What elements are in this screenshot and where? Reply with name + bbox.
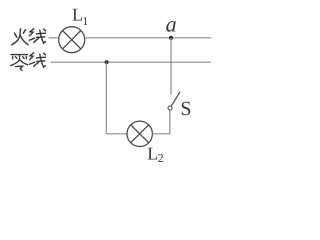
- wire: bottom branch to L2: [106, 133, 127, 135]
- svg-text:L: L: [72, 5, 83, 25]
- wire neutral: [51, 61, 211, 63]
- wire live: dash from 火线 to L1: [48, 37, 57, 39]
- wire: switch up to node a: [170, 38, 172, 95]
- node a (junction dot): [169, 36, 173, 40]
- label 零线 (neutral wire): [11, 53, 46, 71]
- svg-text:1: 1: [82, 14, 88, 28]
- svg-text:a: a: [166, 12, 177, 37]
- label 火线 (live wire): [12, 29, 46, 45]
- lamp L2: [127, 121, 152, 146]
- svg-text:L: L: [147, 144, 158, 164]
- switch S blade: [171, 92, 180, 106]
- wire live: L1 to right edge: [85, 37, 212, 39]
- wire: L2 to switch corner: [153, 110, 170, 134]
- junction dot on neutral wire: [105, 60, 109, 64]
- switch S pivot circle: [168, 106, 172, 110]
- lamp L1: [59, 27, 85, 53]
- wire: neutral junction down to bottom branch: [105, 62, 107, 134]
- svg-text:2: 2: [158, 151, 164, 165]
- svg-text:S: S: [180, 98, 191, 120]
